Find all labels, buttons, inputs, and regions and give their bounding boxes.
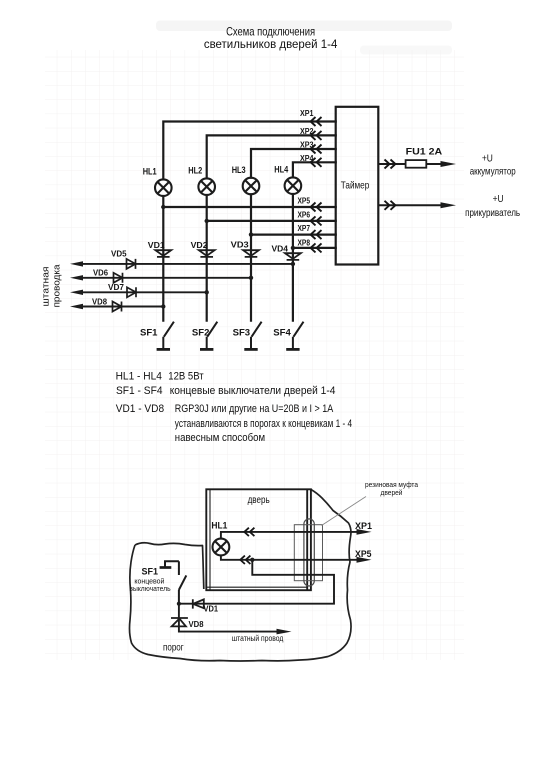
graph paper background: [45, 50, 464, 660]
wire HL4 column: [292, 194, 294, 321]
wire XP6: [207, 220, 336, 222]
wire XP5: [163, 206, 335, 208]
wire HL1 column: [162, 196, 164, 321]
junction on XP5 wire: [250, 558, 254, 562]
timer block: [336, 107, 379, 265]
wire HL4 top to XP4: [293, 162, 336, 177]
lamp HL2: [198, 178, 215, 195]
wire HL2 top to XP2: [207, 135, 336, 178]
svg-text:VD1: VD1: [204, 605, 219, 614]
wire SF1 to VD8: [179, 604, 279, 632]
switch SF2: [200, 322, 217, 350]
rubber boot capsule: [304, 519, 314, 586]
junction XP6-HL2: [205, 219, 209, 223]
svg-text:HL1: HL1: [211, 520, 227, 530]
svg-text:XP4: XP4: [300, 154, 314, 163]
svg-text:HL1: HL1: [143, 167, 157, 177]
wire loop to VD1 line: [179, 560, 334, 604]
svg-text:HL3: HL3: [232, 165, 246, 175]
leader line to boot: [322, 497, 367, 526]
arrow штатный провод: [277, 629, 292, 635]
svg-text:RGP30J или другие на U=20В и: RGP30J или другие на U=20В и I > 1А: [175, 403, 334, 415]
wire HL2 column: [206, 195, 208, 321]
svg-text:SF3: SF3: [233, 327, 251, 337]
arrow left VD7: [70, 290, 83, 295]
connector XP2 chevrons: [311, 131, 322, 140]
svg-text:VD5: VD5: [111, 249, 127, 259]
svg-text:SF4: SF4: [273, 327, 291, 337]
diode VD8 (illustration): [171, 618, 188, 626]
junction VD8-HL1: [161, 304, 165, 308]
svg-text:светильников дверей 1-4: светильников дверей 1-4: [204, 37, 338, 51]
svg-text:HL4: HL4: [274, 165, 288, 175]
arrow left VD5: [70, 261, 83, 266]
arrow to battery: [441, 161, 457, 167]
svg-text:VD6: VD6: [93, 267, 108, 277]
svg-text:XP1: XP1: [300, 109, 314, 118]
junction VD5-HL4: [291, 262, 295, 266]
svg-text:VD3: VD3: [231, 240, 249, 250]
wire XP7: [251, 234, 336, 236]
bus wire VD6 line: [82, 277, 251, 279]
connector XP3 chevrons: [311, 145, 322, 154]
svg-text:аккумулятор: аккумулятор: [470, 166, 516, 177]
junction VD7-HL2: [205, 290, 209, 294]
wire HL1 top to XP1: [163, 122, 335, 180]
svg-text:XP3: XP3: [300, 141, 314, 150]
svg-text:штатный провод: штатный провод: [232, 633, 284, 643]
arrow XP1: [357, 529, 372, 535]
svg-text:прикуриватель: прикуриватель: [465, 208, 520, 219]
diode VD1: [155, 250, 171, 257]
junction VD6-HL3: [249, 276, 253, 280]
lamp HL1: [155, 179, 172, 196]
svg-text:XP8: XP8: [298, 238, 311, 247]
svg-text:XP2: XP2: [300, 127, 314, 136]
svg-text:XP5: XP5: [298, 196, 311, 205]
svg-text:штатнаяпроводка: штатнаяпроводка: [41, 265, 62, 308]
svg-text:дверь: дверь: [248, 495, 270, 506]
svg-text:SF2: SF2: [192, 327, 210, 337]
svg-text:VD1: VD1: [148, 240, 165, 250]
junction XP7-HL3: [249, 232, 253, 236]
lamp HL3: [243, 178, 260, 195]
svg-text:выключатель: выключатель: [129, 584, 170, 593]
connector chevrons output 1: [385, 160, 396, 169]
diode VD8: [113, 302, 122, 312]
svg-text:+U: +U: [482, 153, 493, 165]
svg-text:XP1: XP1: [355, 521, 372, 531]
bus wire VD7 line: [82, 291, 207, 293]
threshold body outline (порог blob): [130, 490, 352, 662]
wire HL3 top to XP3: [251, 149, 336, 178]
connector chevrons on XP1 wire: [244, 528, 254, 536]
svg-text:HL1 - HL4: HL1 - HL4: [116, 370, 162, 382]
svg-text:VD7: VD7: [108, 282, 124, 292]
arrow left VD8: [70, 304, 83, 309]
diode VD6: [114, 273, 123, 283]
bus wire VD8 line: [82, 306, 163, 308]
wire XP8: [293, 247, 336, 249]
svg-text:SF1: SF1: [140, 327, 158, 337]
junction XP8-HL4: [291, 246, 295, 250]
svg-text:+U: +U: [493, 193, 504, 205]
svg-text:SF1: SF1: [142, 567, 159, 577]
wire HL3 column: [250, 194, 252, 320]
svg-text:12В 5Вт: 12В 5Вт: [168, 370, 203, 382]
svg-text:SF1 - SF4: SF1 - SF4: [116, 385, 163, 397]
wire lamp bottom to XP5: [221, 555, 358, 559]
connector XP4 chevrons: [311, 158, 322, 167]
connector XP7 chevrons: [311, 230, 322, 239]
switch SF3: [244, 322, 261, 350]
bus wire VD5 line: [82, 264, 293, 307]
arrow to lighter: [441, 202, 457, 208]
wire timer to fuse to battery: [378, 163, 441, 165]
switch SF4: [286, 322, 303, 350]
svg-text:HL2: HL2: [188, 166, 202, 176]
svg-text:XP7: XP7: [298, 224, 311, 233]
diode VD5: [127, 259, 136, 269]
switch SF1 (illustration): [160, 561, 187, 603]
svg-text:концевые выключатели дверей 1-: концевые выключатели дверей 1-4: [170, 385, 336, 397]
diode VD4: [285, 253, 301, 260]
diode VD7: [127, 287, 136, 297]
svg-text:VD8: VD8: [92, 297, 107, 307]
svg-text:FU1 2A: FU1 2A: [406, 147, 443, 158]
connector XP6 chevrons: [311, 216, 322, 225]
scan artifact band: [156, 21, 452, 32]
diode VD3: [243, 250, 259, 257]
svg-text:XP5: XP5: [355, 549, 372, 559]
arrow XP5: [357, 557, 372, 563]
connector XP1 chevrons: [311, 117, 322, 252]
svg-text:дверей: дверей: [381, 488, 403, 497]
svg-text:навесным способом: навесным способом: [175, 432, 265, 444]
svg-text:порог: порог: [163, 643, 184, 654]
diode VD2: [199, 250, 215, 257]
junction XP5-HL1: [161, 205, 165, 209]
svg-text:XP6: XP6: [298, 210, 311, 219]
svg-text:VD8: VD8: [189, 620, 205, 629]
switch SF1: [157, 322, 174, 350]
wire lamp top to XP1: [221, 532, 358, 539]
fuse FU1: [406, 160, 427, 168]
connector chevrons on XP5 wire: [240, 556, 250, 564]
svg-text:устанавливаются в порогах к ко: устанавливаются в порогах к концевикам 1…: [175, 418, 352, 430]
arrow left VD6: [70, 275, 83, 280]
diode VD1 (illustration): [193, 599, 204, 608]
svg-text:VD4: VD4: [272, 243, 289, 253]
svg-text:VD2: VD2: [191, 240, 208, 250]
lamp HL1 (illustration): [213, 539, 230, 556]
door rectangle: [206, 489, 311, 590]
connector chevrons output 2: [385, 201, 396, 210]
wire timer to lighter: [378, 204, 441, 206]
connector XP8 chevrons: [311, 243, 322, 252]
svg-text:VD1 - VD8: VD1 - VD8: [116, 403, 164, 415]
rubber boot outer outline: [294, 525, 322, 581]
junction SF1-VD1: [177, 602, 181, 606]
lamp HL4: [285, 177, 302, 194]
svg-text:Таймер: Таймер: [341, 180, 370, 192]
connector XP5 chevrons: [311, 203, 322, 212]
